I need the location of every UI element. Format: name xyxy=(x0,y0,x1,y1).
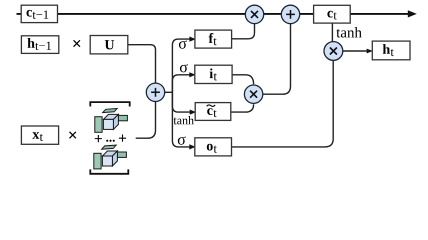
wire bus to f gate xyxy=(172,37,195,93)
wire f_t to forget multiply node xyxy=(232,24,255,39)
bottom bracket of embedding sum xyxy=(90,169,128,173)
wire i_t to input multiply node xyxy=(232,75,254,84)
wire embedding sum to plus node xyxy=(136,101,156,138)
wire U to plus node xyxy=(128,45,156,84)
wire main cell-state line xyxy=(17,10,417,17)
wire o_t to tanh multiply node xyxy=(232,60,334,147)
times sign between x_t and embeddings xyxy=(69,131,76,138)
tanh multiply node for output xyxy=(324,42,343,61)
embedding icon top xyxy=(95,109,128,133)
wire input multiply node to add node xyxy=(263,24,291,95)
forget multiply node on cell line xyxy=(245,5,263,23)
tanh label candidate branch xyxy=(174,116,194,124)
box c_t xyxy=(314,5,351,23)
plus dots plus label xyxy=(95,135,126,143)
wire bus to i gate xyxy=(172,72,195,92)
embedding icon bottom xyxy=(94,145,127,169)
add node on cell line xyxy=(281,5,299,23)
plus node combining h*U and x embeddings xyxy=(146,83,164,101)
box x_t xyxy=(21,126,58,144)
box candidate c_t xyxy=(195,103,231,121)
wire c_t down to tanh multiply node xyxy=(331,23,333,42)
wire bus to candidate gate xyxy=(172,92,196,114)
wire plus node to branch bus xyxy=(165,91,173,93)
sigma label f branch xyxy=(179,40,187,48)
box i_t xyxy=(195,65,232,83)
box o_t xyxy=(195,138,232,156)
times sign between h_{t-1} and U xyxy=(73,40,80,47)
wire candidate to input multiply node xyxy=(231,104,254,112)
sigma label i branch xyxy=(180,64,188,72)
wire tanh multiply node to h_t xyxy=(343,49,373,54)
box U xyxy=(90,36,128,54)
input multiply node i*candidate xyxy=(244,85,262,103)
sigma label o branch xyxy=(178,136,186,144)
box c_{t-1} xyxy=(21,5,57,22)
box f_t xyxy=(195,30,232,48)
wire bus to o gate xyxy=(172,92,195,149)
top bracket of embedding sum xyxy=(90,102,129,106)
box h_{t-1} xyxy=(21,36,58,54)
box h_t xyxy=(372,41,410,60)
tanh label below c_t xyxy=(336,27,361,38)
